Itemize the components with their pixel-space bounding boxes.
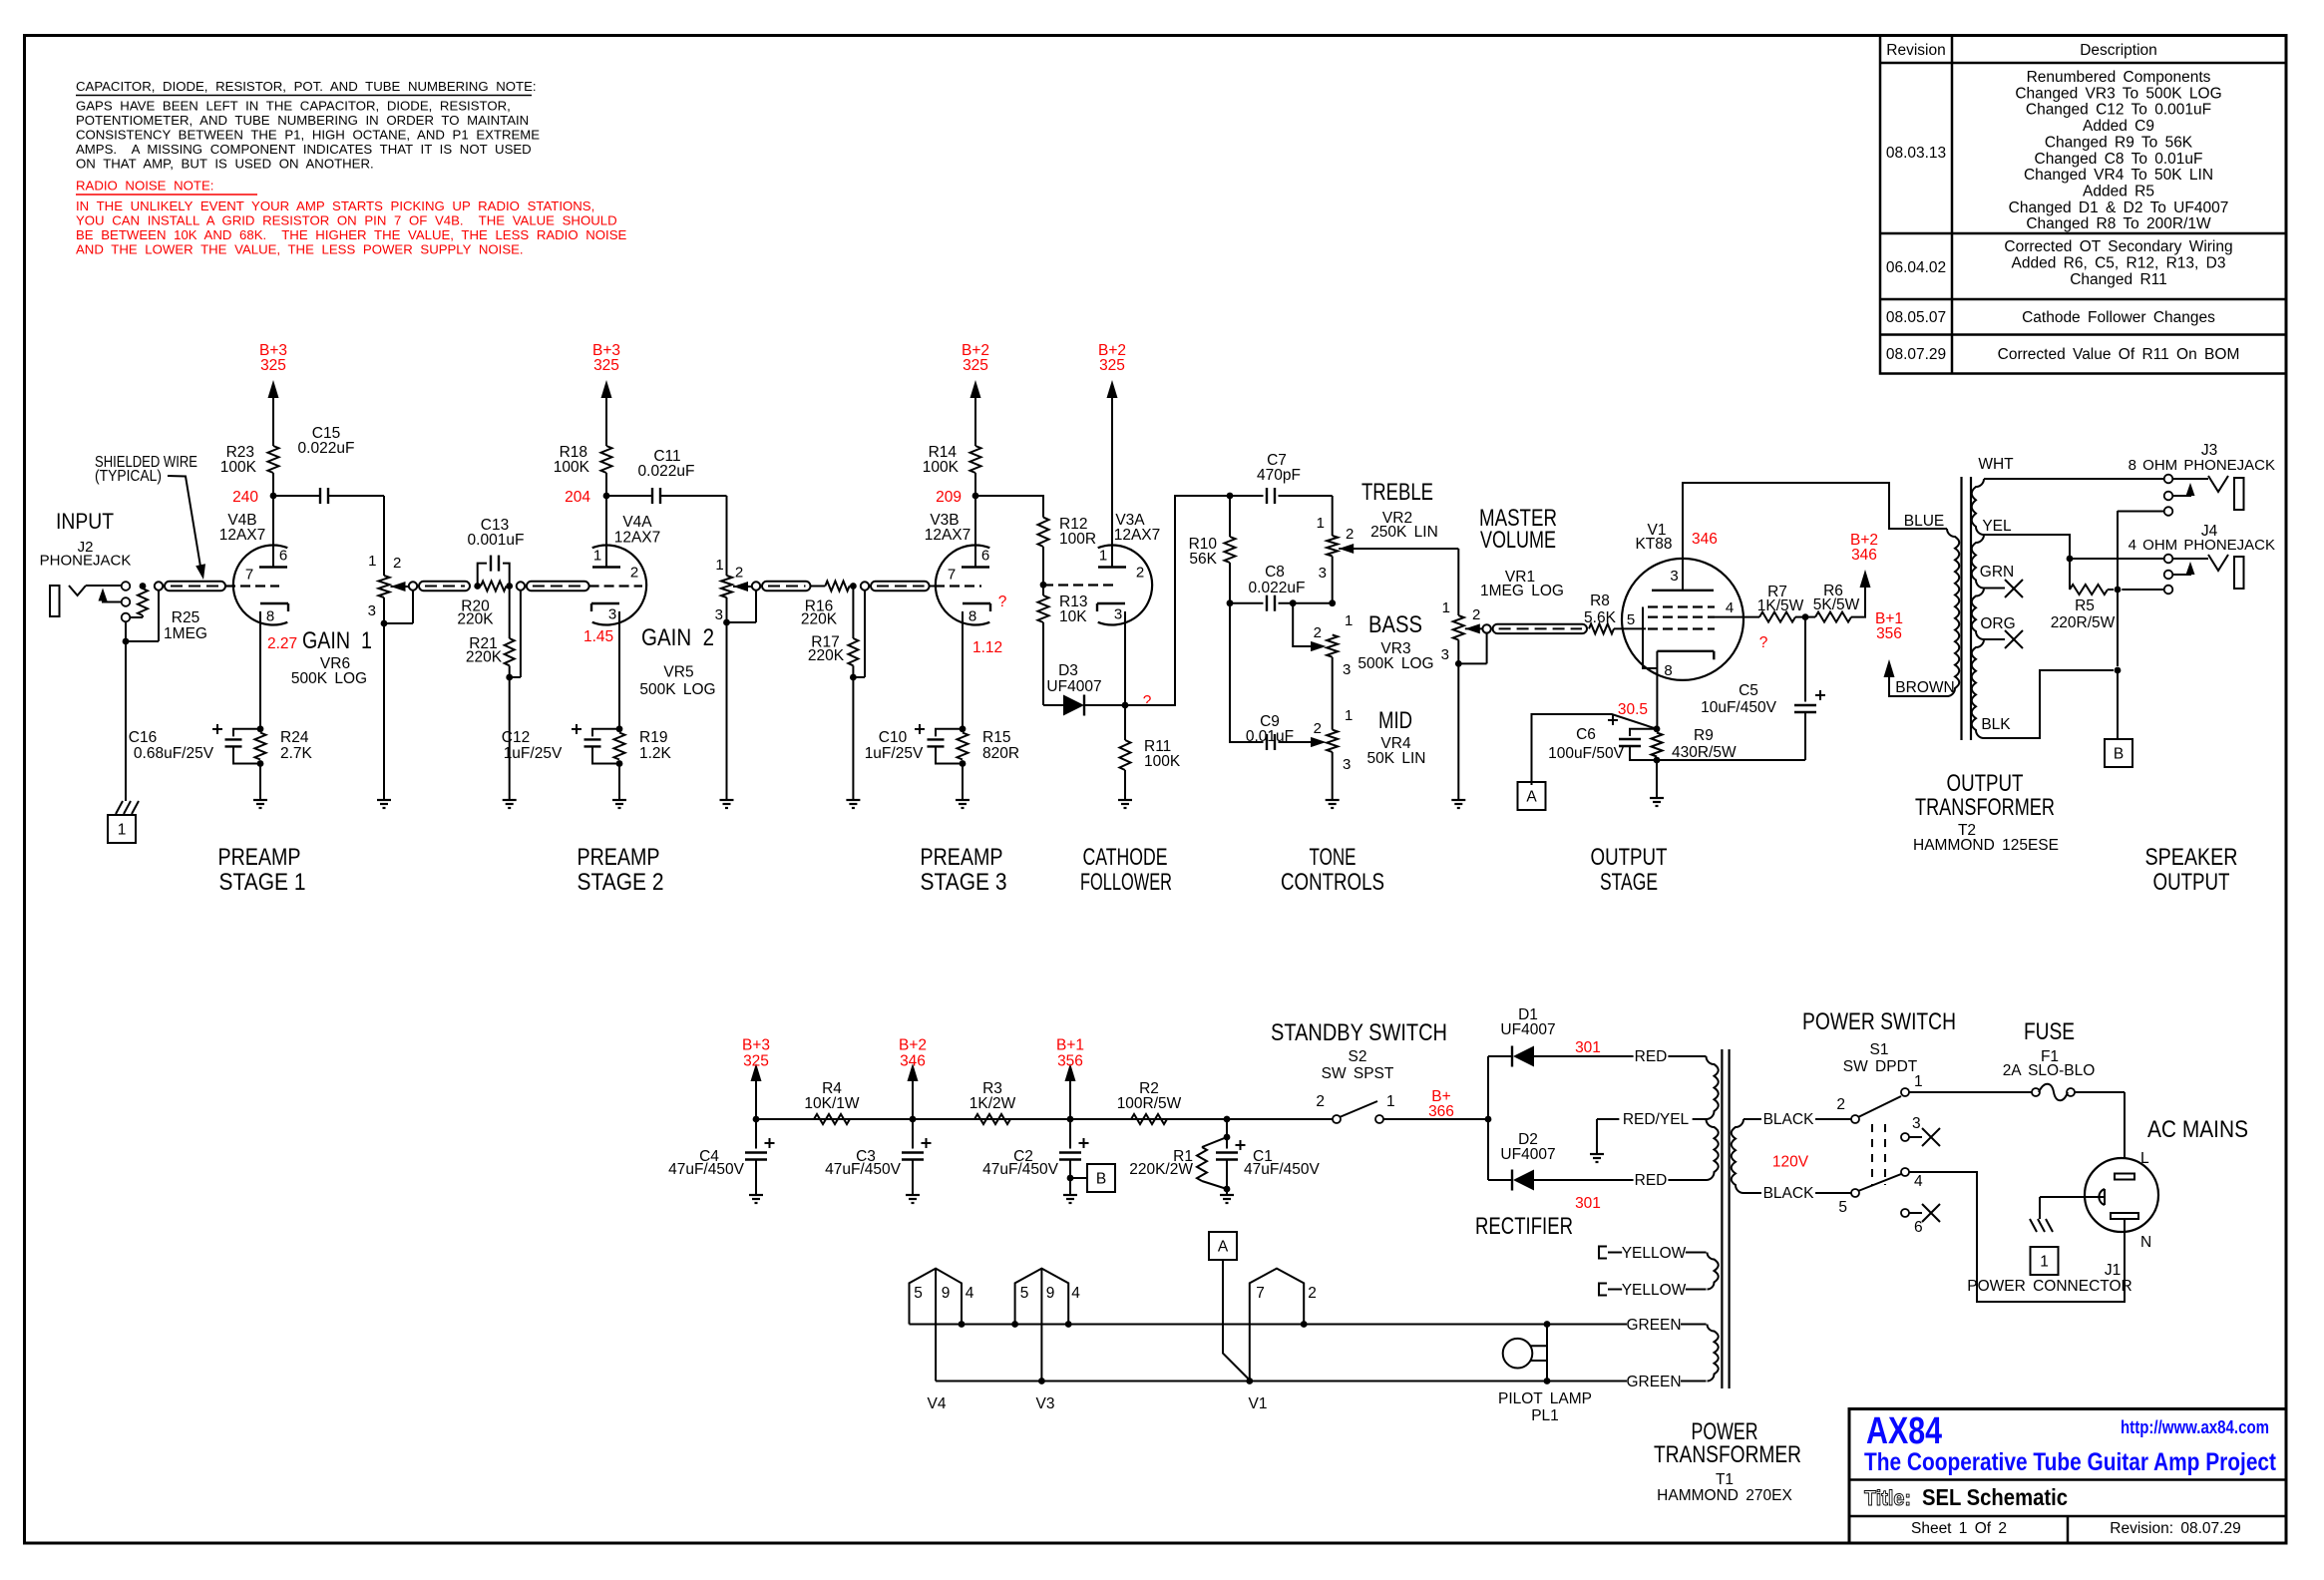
node C7 left: [1227, 493, 1234, 500]
svg-text:J1: J1: [2105, 1262, 2121, 1279]
node C3: [910, 1116, 917, 1123]
resistor R9 430R/5W: [1652, 733, 1663, 757]
box 1 power connector: [2031, 1247, 2059, 1275]
svg-text:6: 6: [279, 548, 287, 565]
wire shield tie VR6: [412, 591, 414, 623]
svg-text:PL1: PL1: [1531, 1407, 1559, 1424]
resistor R1 220K/2W with C1 parallel: [1224, 1134, 1231, 1141]
capacitor C10 1uF/25V + resistor R15 820R: [960, 725, 967, 732]
svg-text:2.7K: 2.7K: [280, 745, 313, 762]
svg-text:1.2K: 1.2K: [639, 745, 672, 762]
svg-text:PHONEJACK: PHONEJACK: [40, 553, 132, 570]
node R9 top: [1654, 725, 1661, 732]
resistor R6 5K/5W: [1815, 612, 1851, 622]
svg-text:Sheet 1 Of 2: Sheet 1 Of 2: [1911, 1520, 2007, 1537]
svg-text:1: 1: [1386, 1093, 1395, 1110]
svg-text:S2: S2: [1349, 1048, 1367, 1065]
svg-text:OUTPUT: OUTPUT: [2153, 869, 2230, 896]
node 240: [270, 493, 277, 500]
svg-text:1MEG LOG: 1MEG LOG: [1480, 583, 1564, 599]
transformer T2 secondary winding: [1972, 479, 1984, 535]
fuse F1 2A SLO-BLO: [1909, 1091, 2032, 1093]
tube V4A 12AX7: [592, 546, 646, 625]
resistor R5 220R/5W: [2069, 563, 2071, 590]
wire treble wiper to VR1: [1339, 548, 1458, 550]
capacitor C5 10uF/450V: [1804, 617, 1806, 702]
ground VR6: [377, 799, 391, 801]
svg-text:S1: S1: [1870, 1041, 1889, 1058]
svg-text:56K: 56K: [1189, 551, 1217, 568]
svg-text:C10: C10: [879, 729, 908, 746]
diode D2 UF4007: [1488, 1179, 1513, 1181]
svg-text:8: 8: [1664, 662, 1672, 679]
node R1/C1: [1224, 1116, 1231, 1123]
svg-text:STAGE 3: STAGE 3: [921, 869, 1007, 896]
arrow B+2 output: [1851, 588, 1865, 617]
switch S1 DPDT: [1851, 1115, 1859, 1123]
svg-text:GAIN 1: GAIN 1: [302, 627, 372, 654]
svg-text:47uF/450V: 47uF/450V: [1244, 1161, 1320, 1178]
svg-text:100K: 100K: [554, 459, 590, 476]
svg-text:UF4007: UF4007: [1500, 1146, 1555, 1163]
ground R9: [1656, 760, 1658, 798]
wire S2 to rectifier node: [1383, 1118, 1488, 1120]
svg-text:1: 1: [593, 548, 601, 565]
V1 beam plate tie: [1643, 607, 1657, 669]
svg-text:Title:: Title:: [1864, 1487, 1911, 1510]
svg-text:346: 346: [1851, 547, 1877, 564]
svg-text:V3: V3: [1036, 1395, 1055, 1412]
svg-text:3: 3: [1670, 568, 1678, 585]
svg-text:RADIO NOISE NOTE:: RADIO NOISE NOTE:: [76, 179, 213, 194]
svg-text:T1: T1: [1716, 1471, 1734, 1488]
resistor R20 220K: [481, 582, 507, 592]
pot VR5 500K LOG gain 2: [721, 576, 732, 597]
svg-text:R8: R8: [1590, 592, 1610, 609]
svg-text:Added C9: Added C9: [2083, 118, 2154, 135]
wire VR5 wiper to shield: [733, 586, 756, 588]
svg-text:VR5: VR5: [663, 664, 693, 681]
wire plate V4A to node 204: [605, 496, 607, 568]
wire shield tie VR5: [755, 591, 757, 622]
capacitor C15 0.022uF: [273, 495, 320, 497]
svg-text:325: 325: [260, 357, 286, 374]
wire shield tie stage3: [864, 591, 866, 677]
wire yellow tap 2: [1608, 1289, 1707, 1291]
ground VR5: [720, 799, 734, 801]
svg-text:STAGE 1: STAGE 1: [219, 869, 306, 896]
wire 209 node to R12: [975, 496, 1043, 518]
svg-text:RED/YEL: RED/YEL: [1623, 1111, 1690, 1128]
svg-text:BLACK: BLACK: [1763, 1111, 1814, 1128]
svg-text:Revision: Revision: [1886, 42, 1945, 59]
capacitor C3 47uF/450V: [912, 1119, 914, 1149]
heater V3: [1015, 1269, 1069, 1325]
svg-text:Added R5: Added R5: [2083, 183, 2154, 199]
svg-text:2A SLO-BLO: 2A SLO-BLO: [2003, 1062, 2096, 1079]
svg-text:Changed C12 To 0.001uF: Changed C12 To 0.001uF: [2026, 102, 2211, 119]
svg-text:1: 1: [1914, 1073, 1923, 1090]
svg-text:3: 3: [1343, 661, 1351, 678]
svg-text:PREAMP: PREAMP: [218, 844, 301, 871]
capacitor C1 47uF/450V: [1226, 1119, 1228, 1149]
svg-text:4: 4: [966, 1285, 974, 1302]
tube V3A 12AX7: [1098, 546, 1152, 625]
wire C2 to box B: [1067, 1175, 1074, 1182]
svg-text:SEL Schematic: SEL Schematic: [1922, 1484, 2068, 1510]
svg-text:?: ?: [998, 593, 1007, 610]
svg-text:356: 356: [1057, 1053, 1083, 1070]
node grid V3A: [1040, 582, 1047, 589]
svg-text:ON THAT AMP, BUT IS USED ON AN: ON THAT AMP, BUT IS USED ON ANOTHER.: [76, 157, 374, 172]
svg-text:2: 2: [1472, 606, 1480, 623]
svg-text:430R/5W: 430R/5W: [1672, 744, 1737, 761]
svg-text:WHT: WHT: [1978, 456, 2014, 473]
svg-text:UF4007: UF4007: [1046, 678, 1101, 695]
svg-text:500K LOG: 500K LOG: [1357, 655, 1433, 672]
svg-text:?: ?: [1143, 693, 1152, 710]
svg-text:5: 5: [1020, 1285, 1029, 1302]
svg-text:Changed R9 To 56K: Changed R9 To 56K: [2045, 134, 2193, 151]
capacitor C9 0.01uF: [1266, 734, 1268, 750]
shielded wire capsule to V3B: [861, 582, 869, 590]
capacitor C6 100uF/50V: [1630, 729, 1657, 736]
svg-text:C8: C8: [1265, 564, 1285, 581]
X no-connect pin6: [1909, 1212, 1922, 1214]
svg-text:240: 240: [232, 489, 258, 506]
svg-text:325: 325: [593, 357, 619, 374]
svg-text:250K LIN: 250K LIN: [1370, 524, 1438, 541]
svg-text:R25: R25: [172, 609, 199, 626]
svg-text:2: 2: [1316, 1093, 1325, 1110]
svg-text:100R/5W: 100R/5W: [1117, 1095, 1182, 1112]
svg-text:YELLOW: YELLOW: [1622, 1282, 1687, 1299]
svg-text:1: 1: [1442, 599, 1450, 616]
svg-text:N: N: [2140, 1234, 2151, 1251]
svg-text:B+2: B+2: [899, 1037, 927, 1054]
svg-text:0.022uF: 0.022uF: [298, 440, 355, 457]
grid wire dashed V4A: [589, 585, 642, 587]
svg-text:325: 325: [1099, 357, 1125, 374]
svg-text:YOU CAN INSTALL A GRID RESISTO: YOU CAN INSTALL A GRID RESISTOR ON PIN 7…: [76, 213, 617, 228]
svg-text:MID: MID: [1378, 707, 1412, 734]
svg-text:500K LOG: 500K LOG: [639, 681, 715, 698]
svg-text:FOLLOWER: FOLLOWER: [1080, 869, 1172, 896]
wire from A to output cathode: [1532, 714, 1658, 785]
box B psu: [1087, 1164, 1115, 1192]
wire V1 plate to transformer: [1683, 483, 1947, 591]
node C2: [1067, 1116, 1074, 1123]
svg-text:Corrected OT Secondary Wiring: Corrected OT Secondary Wiring: [2004, 238, 2232, 255]
transformer T2 primary winding: [1947, 529, 1959, 696]
svg-text:2: 2: [393, 555, 401, 572]
diode D1 UF4007: [1488, 1055, 1513, 1057]
pot VR6 500K LOG gain 1: [379, 576, 390, 597]
svg-text:R5: R5: [2075, 597, 2095, 614]
svg-text:1K/2W: 1K/2W: [969, 1095, 1016, 1112]
svg-text:6: 6: [981, 548, 989, 565]
transformer T1 primary winding: [1732, 1119, 1743, 1193]
arrow B+1 brown: [1889, 677, 1947, 696]
V1 cathode: [1657, 650, 1714, 652]
transformer T1 green winding: [1708, 1325, 1719, 1382]
wire YEL tap: [1984, 535, 2070, 555]
svg-text:06.04.02: 06.04.02: [1886, 259, 1946, 276]
svg-text:OUTPUT: OUTPUT: [1947, 770, 2024, 797]
shielded wire capsule stage1-2: [409, 582, 417, 590]
svg-text:FUSE: FUSE: [2024, 1018, 2075, 1045]
svg-text:2: 2: [1136, 565, 1144, 582]
svg-text:9: 9: [1046, 1285, 1055, 1302]
svg-text:RED: RED: [1635, 1172, 1668, 1189]
svg-text:POWER CONNECTOR: POWER CONNECTOR: [1967, 1278, 2131, 1295]
svg-text:AND THE LOWER THE VALUE, THE L: AND THE LOWER THE VALUE, THE LESS POWER …: [76, 242, 524, 257]
svg-text:C5: C5: [1739, 682, 1758, 699]
svg-text:8 OHM PHONEJACK: 8 OHM PHONEJACK: [2129, 457, 2275, 474]
svg-text:SW SPST: SW SPST: [1322, 1065, 1394, 1082]
V1 grid2 dashed: [1648, 615, 1715, 617]
node junction R20 right: [506, 583, 513, 590]
svg-text:0.022uF: 0.022uF: [638, 463, 695, 480]
wire shield tie: [126, 640, 159, 642]
svg-text:STANDBY SWITCH: STANDBY SWITCH: [1271, 1019, 1447, 1046]
AC plug J1: [2085, 1158, 2158, 1232]
svg-text:1MEG: 1MEG: [164, 625, 207, 642]
svg-text:Description: Description: [2080, 42, 2157, 59]
node R5-J4 sleeve: [2115, 587, 2122, 593]
wire fuse to plug L: [2124, 1092, 2126, 1158]
svg-text:2.27: 2.27: [267, 635, 297, 652]
svg-text:30.5: 30.5: [1618, 701, 1648, 718]
capacitor C2 47uF/450V: [1069, 1119, 1071, 1149]
revision table: [1880, 36, 2286, 374]
svg-text:5K/5W: 5K/5W: [1813, 596, 1860, 613]
svg-text:325: 325: [743, 1053, 769, 1070]
transformer T1 core: [1721, 1049, 1723, 1388]
wire shield tie stage2: [520, 591, 522, 677]
wire to pot VR5: [726, 496, 728, 576]
capacitor C7 470pF: [1230, 495, 1264, 497]
power node B+2 arrow: [970, 380, 981, 398]
svg-text:2: 2: [1346, 526, 1354, 543]
svg-text:B: B: [2114, 746, 2124, 763]
chassis ground input: [116, 801, 123, 814]
svg-text:Changed R11: Changed R11: [2070, 271, 2167, 288]
svg-text:1uF/25V: 1uF/25V: [504, 745, 563, 762]
grid wire dashed V3A: [1043, 584, 1118, 586]
svg-text:Revision: 08.07.29: Revision: 08.07.29: [2110, 1520, 2240, 1537]
svg-text:CAPACITOR, DIODE, RESISTOR, PO: CAPACITOR, DIODE, RESISTOR, POT. AND TUB…: [76, 79, 537, 94]
svg-text:STAGE 2: STAGE 2: [578, 869, 664, 896]
svg-text:?: ?: [1759, 634, 1768, 651]
shielded wire input capsule: [155, 582, 163, 590]
transformer T1 heater winding: [1708, 1253, 1719, 1290]
svg-text:470pF: 470pF: [1257, 467, 1301, 484]
box A heater: [1209, 1232, 1237, 1260]
svg-text:100K: 100K: [923, 459, 960, 476]
svg-text:HAMMOND 125ESE: HAMMOND 125ESE: [1913, 837, 2059, 854]
svg-text:10K/1W: 10K/1W: [804, 1095, 860, 1112]
wire GRN tap with X: [1984, 588, 2005, 590]
resistor R3 1K/2W: [974, 1114, 1010, 1124]
svg-text:7: 7: [1256, 1285, 1265, 1302]
svg-text:(TYPICAL): (TYPICAL): [95, 468, 162, 485]
svg-text:10uF/450V: 10uF/450V: [1701, 699, 1776, 716]
svg-text:CATHODE: CATHODE: [1083, 844, 1168, 871]
cathode wire V3B: [962, 611, 964, 729]
svg-text:9: 9: [942, 1285, 951, 1302]
wire C9 row: [1230, 603, 1264, 742]
svg-text:Changed R8 To 200R/1W: Changed R8 To 200R/1W: [2026, 215, 2211, 232]
heater V1: [1250, 1269, 1304, 1381]
svg-text:2: 2: [735, 565, 743, 582]
wire VR1 wiper to shield: [1465, 627, 1487, 629]
svg-text:7: 7: [948, 567, 956, 584]
pot VR4 mid 50K LIN: [1327, 730, 1338, 752]
svg-text:ORG: ORG: [1980, 615, 2015, 632]
resistor R8 5.6K: [1589, 623, 1614, 633]
ground R21: [503, 799, 517, 801]
svg-text:GAIN 2: GAIN 2: [641, 624, 714, 651]
svg-text:220R/5W: 220R/5W: [2051, 614, 2116, 631]
node 204: [603, 493, 610, 500]
wire to pot VR6: [383, 496, 385, 576]
svg-text:3: 3: [1319, 565, 1327, 582]
svg-text:GREEN: GREEN: [1626, 1317, 1681, 1334]
power node B+3 arrow: [601, 380, 612, 398]
capacitor C8 0.022uF: [1230, 602, 1264, 604]
svg-text:SW DPDT: SW DPDT: [1843, 1058, 1918, 1075]
capacitor C13 0.001uF: [478, 564, 487, 587]
svg-text:5: 5: [914, 1285, 923, 1302]
svg-text:Added R6, C5, R12, R13, D3: Added R6, C5, R12, R13, D3: [2012, 255, 2226, 272]
svg-text:08.05.07: 08.05.07: [1886, 309, 1946, 326]
resistor R25 1MEG: [140, 583, 147, 590]
svg-text:1: 1: [2040, 1254, 2049, 1271]
svg-text:POTENTIOMETER, AND TUBE NUMBER: POTENTIOMETER, AND TUBE NUMBERING IN ORD…: [76, 113, 529, 128]
svg-text:BLUE: BLUE: [1904, 513, 1945, 530]
cathode wire V3A to node: [1124, 611, 1126, 705]
wire shield tie VR1: [1486, 633, 1488, 664]
resistor R23 100K: [272, 473, 274, 496]
svg-text:Corrected Value Of R11 On BOM: Corrected Value Of R11 On BOM: [1998, 346, 2240, 363]
svg-text:SPEAKER: SPEAKER: [2145, 844, 2238, 871]
cathode network V4B: wire: [259, 611, 261, 729]
transformer T1 HV secondary winding: [1707, 1056, 1719, 1119]
svg-text:R24: R24: [280, 729, 309, 746]
tube V1 KT88: [1622, 559, 1743, 680]
svg-text:TRANSFORMER: TRANSFORMER: [1915, 794, 2055, 821]
svg-text:STAGE: STAGE: [1600, 869, 1658, 896]
svg-text:5: 5: [1838, 1199, 1847, 1216]
svg-text:BASS: BASS: [1368, 611, 1422, 638]
svg-text:1: 1: [1345, 707, 1353, 724]
node junction R16 right: [850, 586, 854, 588]
svg-text:100R: 100R: [1059, 531, 1096, 548]
resistor R21 220K: [509, 587, 511, 639]
input tip switch arrow: [103, 592, 122, 602]
power node B+3 arrow: [268, 380, 279, 398]
svg-text:Changed VR4 To 50K LIN: Changed VR4 To 50K LIN: [2024, 167, 2213, 184]
wire center tap RED/YEL: [1597, 1118, 1707, 1120]
node C8 row: [1329, 599, 1336, 606]
svg-text:209: 209: [936, 489, 962, 506]
svg-text:YELLOW: YELLOW: [1622, 1245, 1687, 1262]
node cathode follower out: [1122, 702, 1129, 709]
wire treble top: [1332, 496, 1334, 536]
B+ rail wire: [756, 1118, 1337, 1120]
svg-text:3: 3: [368, 602, 376, 619]
svg-text:C6: C6: [1576, 726, 1596, 743]
svg-text:The Cooperative Tube Guitar Am: The Cooperative Tube Guitar Amp Project: [1864, 1448, 2277, 1476]
svg-text:V1: V1: [1249, 1395, 1268, 1412]
wire input sleeve to ground: [125, 621, 127, 641]
svg-text:Changed D1 & D2 To UF4007: Changed D1 & D2 To UF4007: [2009, 199, 2229, 216]
svg-text:4: 4: [1071, 1285, 1080, 1302]
box B speaker: [2105, 739, 2132, 767]
node R7-R6: [1795, 616, 1805, 618]
node YEL-J4: [2067, 556, 2074, 563]
svg-text:R9: R9: [1694, 727, 1714, 744]
svg-text:1: 1: [1317, 515, 1325, 532]
svg-text:Changed VR3 To 500K LOG: Changed VR3 To 500K LOG: [2015, 85, 2221, 102]
resistor R11 100K: [1124, 705, 1126, 740]
svg-text:BLK: BLK: [1981, 716, 2011, 733]
cathode wire V4A: [618, 611, 620, 729]
svg-text:BROWN: BROWN: [1895, 679, 1954, 696]
svg-text:2: 2: [630, 565, 638, 582]
svg-text:AC MAINS: AC MAINS: [2147, 1116, 2248, 1143]
svg-text:PREAMP: PREAMP: [921, 844, 1003, 871]
svg-text:6: 6: [1914, 1219, 1923, 1236]
capacitor C12 1uF/25V + resistor R19 1.2K: [616, 725, 623, 732]
svg-text:B+1: B+1: [1056, 1037, 1084, 1054]
svg-text:3: 3: [715, 606, 723, 623]
svg-text:820R: 820R: [982, 745, 1019, 762]
X no-connect pin3: [1909, 1136, 1922, 1138]
wire A to heater bus: [1223, 1260, 1250, 1381]
transformer T2 core: [1960, 477, 1962, 740]
resistor R14 100K: [974, 473, 976, 496]
svg-text:A: A: [1218, 1239, 1229, 1256]
wire plate V4B to node 240: [272, 496, 274, 568]
node 209: [972, 493, 979, 500]
heater V4: [910, 1269, 963, 1325]
capacitor C16 0.68uF/25V + resistor R24 2.7K: [257, 725, 264, 732]
capacitor C11 0.022uF: [606, 495, 652, 497]
svg-text:CONSISTENCY BETWEEN THE P1, HI: CONSISTENCY BETWEEN THE P1, HIGH OCTANE,…: [76, 128, 540, 143]
svg-text:301: 301: [1575, 1039, 1601, 1056]
svg-text:BE BETWEEN 10K AND 68K. THE H: BE BETWEEN 10K AND 68K. THE HIGHER THE V…: [76, 227, 626, 242]
resistor R7 1K/5W: [1759, 612, 1795, 622]
svg-text:346: 346: [1692, 531, 1718, 548]
wire WHT to J3: [1984, 478, 2164, 480]
power arrow B+3 bottom: [755, 1069, 757, 1119]
svg-text:100K: 100K: [220, 459, 257, 476]
wire green top / heater bus top: [910, 1324, 1707, 1326]
capacitor C4 47uF/450V: [755, 1119, 757, 1149]
svg-text:1: 1: [118, 822, 127, 839]
ground R11: [1118, 799, 1132, 801]
svg-text:5: 5: [1627, 611, 1635, 628]
svg-text:47uF/450V: 47uF/450V: [668, 1161, 744, 1178]
wire plate V3A to B+2: [1111, 398, 1113, 568]
shielded wire capsule to V4A: [517, 582, 525, 590]
diode D3 UF4007: [1043, 704, 1063, 706]
svg-text:366: 366: [1428, 1103, 1454, 1120]
resistor R4 10K/1W: [814, 1114, 850, 1124]
svg-text:GRN: GRN: [1980, 564, 2014, 581]
